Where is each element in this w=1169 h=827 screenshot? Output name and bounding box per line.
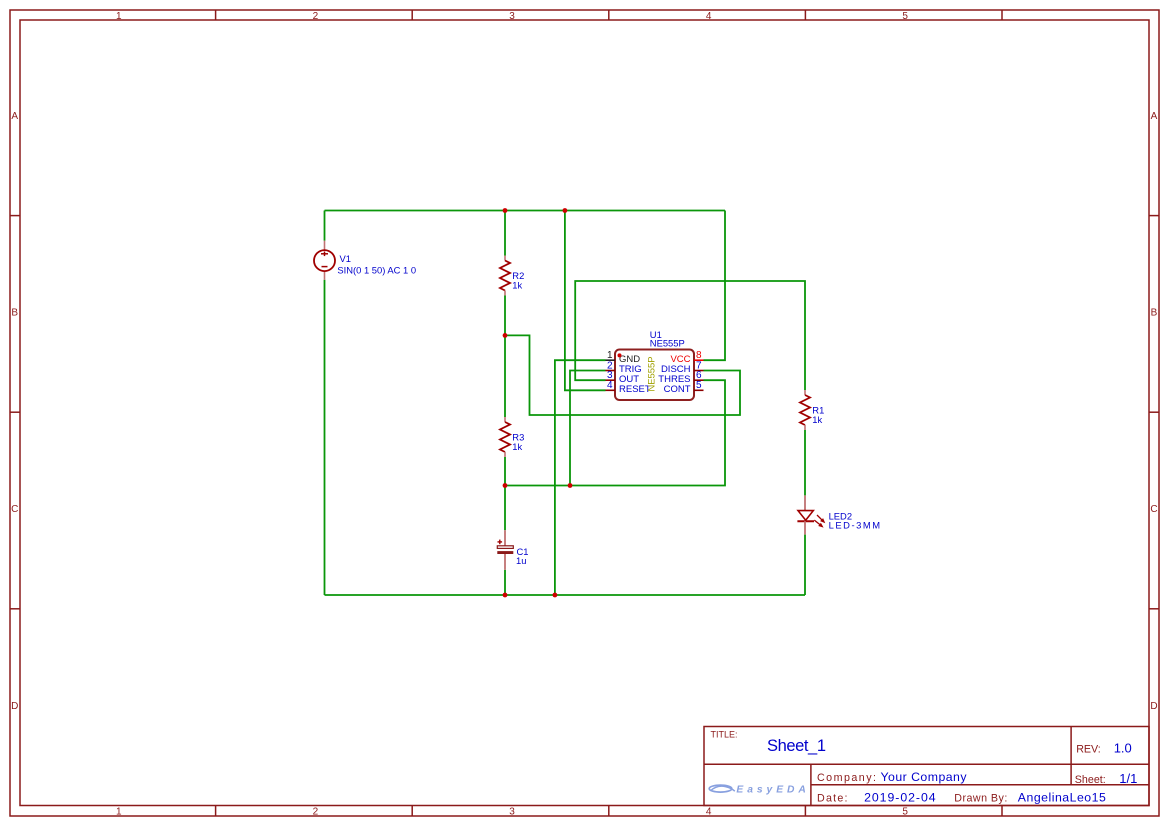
svg-text:1k: 1k [512,441,522,452]
svg-text:D: D [11,701,18,712]
svg-text:TITLE:: TITLE: [711,730,738,740]
svg-text:B: B [11,308,18,319]
svg-text:Date:: Date: [817,793,848,805]
svg-text:Sheet_1: Sheet_1 [767,737,826,755]
svg-text:2: 2 [313,807,319,818]
svg-text:C: C [1150,504,1157,515]
svg-text:4: 4 [706,11,712,22]
svg-text:5: 5 [696,380,702,391]
svg-text:V1: V1 [340,253,351,264]
svg-text:1/1: 1/1 [1119,771,1137,786]
svg-text:3: 3 [509,11,515,22]
svg-text:1: 1 [116,807,122,818]
svg-text:2019-02-04: 2019-02-04 [864,791,936,805]
svg-text:B: B [1151,308,1158,319]
svg-text:1k: 1k [812,414,822,425]
svg-text:5: 5 [902,807,908,818]
svg-text:1u: 1u [516,555,526,566]
svg-text:3: 3 [509,807,515,818]
svg-text:Your Company: Your Company [881,770,968,784]
svg-text:1.0: 1.0 [1114,741,1132,756]
svg-text:Company:: Company: [817,772,876,784]
svg-text:A: A [1151,111,1158,122]
svg-text:1k: 1k [512,279,522,290]
svg-text:NE555P: NE555P [646,357,657,392]
svg-text:NE555P: NE555P [650,338,685,349]
svg-text:AngelinaLeo15: AngelinaLeo15 [1018,791,1106,805]
svg-text:C: C [11,504,18,515]
svg-text:4: 4 [706,807,712,818]
svg-text:EasyEDA: EasyEDA [736,784,805,795]
svg-text:Drawn By:: Drawn By: [954,793,1007,805]
svg-text:1: 1 [116,11,122,22]
svg-text:A: A [11,111,18,122]
svg-text:CONT: CONT [664,384,691,395]
svg-text:LED-3MM: LED-3MM [829,519,881,530]
svg-text:D: D [1150,701,1157,712]
svg-text:5: 5 [902,11,908,22]
svg-text:SIN(0 1 50) AC 1 0: SIN(0 1 50) AC 1 0 [337,264,416,275]
svg-text:2: 2 [313,11,319,22]
svg-text:Sheet:: Sheet: [1075,774,1106,786]
svg-text:REV:: REV: [1076,744,1101,756]
svg-text:4: 4 [607,380,613,391]
